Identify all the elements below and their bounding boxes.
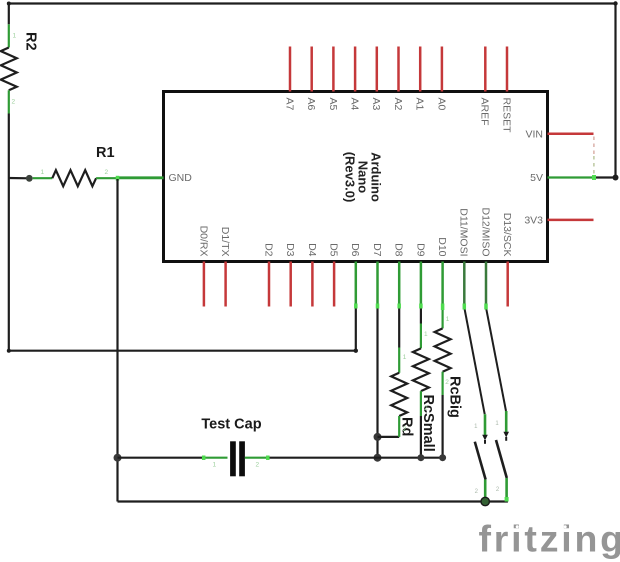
svg-text:1: 1: [41, 169, 45, 176]
svg-text:1: 1: [446, 316, 450, 323]
svg-text:A4: A4: [349, 98, 361, 111]
svg-text:2: 2: [424, 405, 428, 412]
svg-text:2: 2: [445, 379, 449, 386]
svg-text:A7: A7: [283, 98, 295, 111]
svg-text:1: 1: [424, 331, 428, 338]
svg-text:Rd: Rd: [399, 417, 415, 436]
svg-text:R1: R1: [96, 145, 115, 161]
svg-text:D1/TX: D1/TX: [219, 227, 231, 257]
svg-text:1: 1: [403, 354, 407, 361]
svg-text:AREF: AREF: [479, 98, 491, 126]
svg-text:2: 2: [105, 169, 109, 176]
svg-text:D13/SCK: D13/SCK: [501, 213, 513, 257]
svg-text:D8: D8: [393, 243, 405, 257]
svg-text:RESET: RESET: [500, 98, 512, 134]
svg-text:2: 2: [403, 426, 407, 433]
svg-text:D11/MOSI: D11/MOSI: [458, 208, 470, 256]
svg-text:D3: D3: [284, 243, 296, 257]
svg-text:5V: 5V: [530, 172, 543, 184]
svg-text:R2: R2: [23, 32, 39, 51]
svg-text:D9: D9: [414, 243, 426, 257]
svg-text:1: 1: [13, 33, 17, 40]
svg-text:D4: D4: [306, 243, 318, 257]
svg-text:(Rev3.0): (Rev3.0): [343, 152, 358, 203]
svg-text:VIN: VIN: [525, 129, 543, 141]
svg-text:GND: GND: [169, 172, 193, 184]
svg-text:Test Cap: Test Cap: [201, 417, 261, 433]
svg-text:A6: A6: [305, 98, 317, 111]
svg-text:D0/RX: D0/RX: [197, 226, 209, 257]
svg-text:D7: D7: [371, 243, 383, 257]
svg-text:A0: A0: [435, 98, 447, 111]
svg-text:2: 2: [256, 462, 260, 469]
svg-text:A1: A1: [414, 98, 426, 111]
svg-text:2: 2: [12, 99, 16, 106]
svg-text:A5: A5: [327, 98, 339, 111]
svg-text:A2: A2: [392, 98, 404, 111]
svg-text:D5: D5: [328, 243, 340, 257]
svg-text:D12/MISO: D12/MISO: [479, 207, 491, 256]
svg-text:D10: D10: [436, 237, 448, 256]
svg-text:3V3: 3V3: [524, 215, 543, 227]
svg-text:fritzing: fritzing: [479, 518, 620, 560]
svg-text:1: 1: [213, 462, 217, 469]
svg-text:A3: A3: [370, 98, 382, 111]
svg-text:RcSmall: RcSmall: [420, 395, 436, 452]
svg-text:D2: D2: [262, 243, 274, 257]
svg-text:D6: D6: [349, 243, 361, 257]
